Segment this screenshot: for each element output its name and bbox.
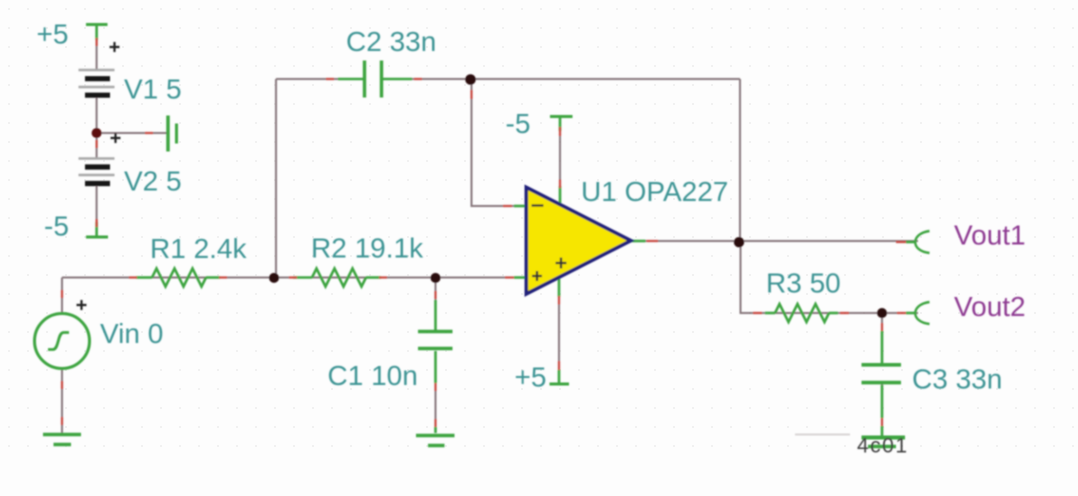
svg-text:C1 10n: C1 10n — [328, 360, 418, 391]
svg-text:+5: +5 — [37, 19, 69, 50]
svg-text:V2 5: V2 5 — [124, 166, 182, 197]
svg-text:R1 2.4k: R1 2.4k — [150, 233, 247, 264]
svg-text:4c01: 4c01 — [857, 435, 909, 458]
svg-text:U1 OPA227: U1 OPA227 — [581, 176, 728, 207]
svg-text:R2 19.1k: R2 19.1k — [311, 233, 424, 264]
svg-text:R3 50: R3 50 — [766, 268, 841, 299]
svg-text:+5: +5 — [515, 362, 547, 393]
svg-text:C2 33n: C2 33n — [346, 26, 436, 57]
svg-text:Vout1: Vout1 — [954, 220, 1026, 251]
svg-text:V1 5: V1 5 — [124, 74, 182, 105]
svg-text:C3 33n: C3 33n — [912, 364, 1002, 395]
svg-text:-5: -5 — [44, 211, 69, 242]
svg-text:Vin 0: Vin 0 — [100, 318, 163, 349]
svg-text:Vout2: Vout2 — [954, 291, 1026, 322]
svg-text:-5: -5 — [506, 108, 531, 139]
